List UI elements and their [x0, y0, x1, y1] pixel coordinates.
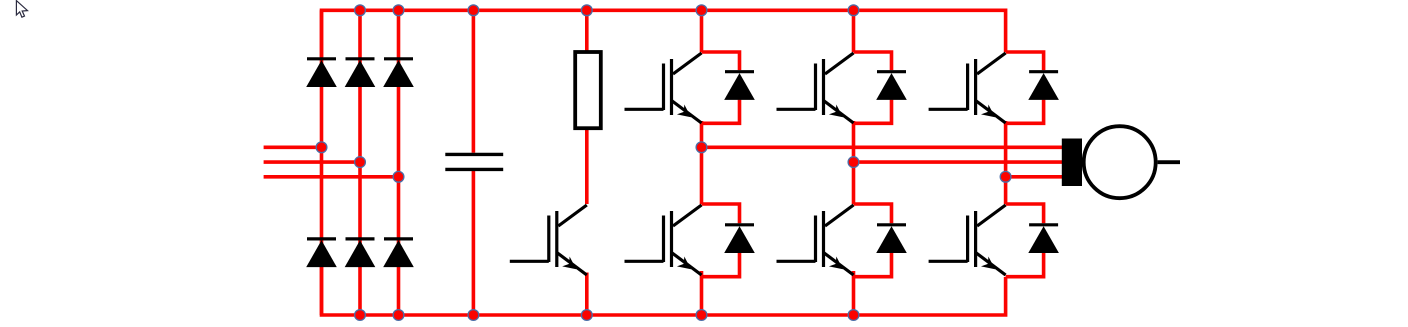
diode D7: [724, 72, 755, 100]
node dot AC L2: [355, 157, 366, 168]
diode D5: [345, 239, 376, 267]
node dot phase U: [696, 142, 707, 153]
motor shaft: [1158, 160, 1180, 164]
wire leg 3 verticals: [1006, 52, 1044, 277]
diode D3: [383, 59, 414, 87]
transistor Q2: [625, 205, 702, 275]
node dot top bus at leg 2: [848, 5, 859, 16]
wire rectifier column 2: [358, 10, 362, 315]
wire capacitor column: [472, 10, 476, 315]
wire AC input line L3: [264, 175, 399, 179]
transistor Q6: [929, 205, 1006, 275]
wire rectifier column 3: [397, 10, 401, 315]
mouse cursor: [16, 1, 27, 18]
node dot bottom bus at leg 2: [848, 310, 859, 321]
transistor Q3: [777, 53, 854, 123]
node dot AC L1: [316, 142, 327, 153]
node dot phase V: [848, 157, 859, 168]
wire top DC bus: [322, 10, 1006, 57]
diode D1: [306, 59, 337, 87]
transistor Q4: [777, 205, 854, 275]
transistor Q5: [929, 53, 1006, 123]
node dot phase W: [1000, 171, 1011, 182]
wire bottom DC bus: [322, 266, 1006, 315]
diode D11: [1028, 72, 1059, 100]
node dot bottom bus at column 2: [355, 310, 366, 321]
diode D2: [345, 59, 376, 87]
wire leg 2 verticals: [854, 10, 892, 315]
node dot AC L3: [393, 171, 404, 182]
wire AC input line L1: [264, 146, 322, 150]
transistor Q7 brake IGBT: [510, 205, 587, 275]
node dot top bus at capacitor: [468, 5, 479, 16]
wire phase U output: [702, 146, 1063, 150]
node dot bottom bus at column 3: [393, 310, 404, 321]
resistor R1: [575, 52, 601, 128]
node dot bottom bus at brake: [581, 310, 592, 321]
node dot top bus at column 2: [355, 5, 366, 16]
node dot bottom bus at capacitor: [468, 310, 479, 321]
motor terminal block: [1062, 139, 1082, 187]
wire phase W output: [1006, 175, 1062, 179]
node dot top bus at leg 1: [696, 5, 707, 16]
diode D8: [724, 225, 755, 253]
node dot top bus at column 3: [393, 5, 404, 16]
wire AC input line L2: [264, 160, 360, 164]
wire phase V output: [854, 160, 1063, 164]
transistor Q1: [625, 53, 702, 123]
node dot top bus at brake: [581, 5, 592, 16]
wire rectifier column 1: [320, 10, 324, 315]
wire brake chopper column: [585, 10, 589, 315]
capacitor C1: [445, 154, 503, 169]
diode D9: [876, 72, 907, 100]
node dot bottom bus at leg 1: [696, 310, 707, 321]
wire leg 1 verticals: [702, 10, 740, 315]
diode D4: [306, 239, 337, 267]
motor M1: [1084, 126, 1156, 198]
diode D12: [1028, 225, 1059, 253]
diode D6: [383, 239, 414, 267]
diode D10: [876, 225, 907, 253]
